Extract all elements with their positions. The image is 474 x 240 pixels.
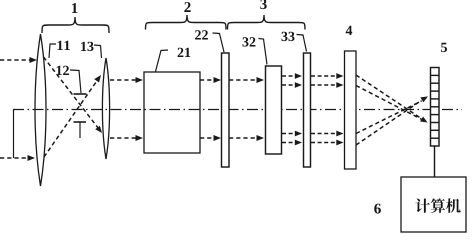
input beam bracket wire bbox=[13, 110, 15, 159]
box 21 bbox=[144, 72, 200, 153]
brace group 3 bbox=[228, 15, 306, 30]
label 计算机 (computer) bbox=[415, 198, 460, 213]
leader 13 bbox=[94, 45, 102, 58]
aperture 12 top bar bbox=[74, 93, 87, 95]
input beam arrow bottom bbox=[0, 155, 35, 161]
element 33 (thin plate) bbox=[304, 53, 311, 167]
leader 32 bbox=[259, 39, 268, 65]
ray pair element33 to lens4 upper bbox=[311, 73, 344, 88]
label 33 bbox=[282, 32, 295, 41]
aperture 12 bottom bar bbox=[74, 122, 87, 138]
ray element22 to grating32 bottom bbox=[229, 135, 264, 141]
ray lens13 to box21 top bbox=[110, 77, 143, 83]
ray pair element33 to lens4 lower bbox=[311, 131, 344, 146]
label 6 bbox=[374, 204, 381, 214]
wire array5 to computer bbox=[434, 146, 436, 177]
ray box21 to element22 top bbox=[200, 77, 221, 83]
ray pair grating32 to element33 upper bbox=[282, 73, 302, 88]
label 21 bbox=[178, 48, 191, 57]
lens 4 (focusing element) bbox=[345, 51, 357, 169]
label 2 bbox=[184, 2, 190, 12]
converging ray D bbox=[356, 100, 422, 145]
lens 11 (large collimating lens) bbox=[35, 34, 46, 186]
brace group 1 bbox=[42, 17, 109, 33]
optical axis bbox=[13, 109, 462, 111]
detector array 5 bbox=[431, 68, 440, 147]
leader 33 bbox=[297, 35, 307, 52]
arrowhead upper focus bbox=[420, 96, 428, 102]
label 32 bbox=[243, 37, 256, 46]
converging ray A (top pair to lower focus) bbox=[356, 75, 422, 119]
input beam arrow top bbox=[0, 57, 37, 63]
label 3 bbox=[260, 0, 266, 9]
leader 11 bbox=[49, 44, 56, 58]
arrowhead lower focus bbox=[420, 117, 427, 123]
leader 22 bbox=[213, 33, 225, 52]
ray box21 to element22 bottom bbox=[200, 135, 221, 141]
brace group 2 bbox=[146, 15, 227, 30]
leader 12 bbox=[70, 70, 81, 93]
leader 21 bbox=[156, 50, 169, 72]
element 22 (thin plate) bbox=[222, 53, 230, 167]
converging ray B bbox=[356, 86, 422, 120]
ray lens11 to lens13 (down diagonal) bbox=[44, 57, 103, 133]
label 22 bbox=[195, 30, 208, 39]
label 4 bbox=[346, 26, 353, 35]
ray pair grating32 to element33 lower bbox=[282, 131, 302, 146]
ray element22 to grating32 top bbox=[229, 77, 264, 83]
converging ray C (bottom pair to upper focus) bbox=[356, 101, 422, 134]
label 12 bbox=[57, 66, 69, 75]
label 5 bbox=[441, 43, 447, 52]
label 11 bbox=[58, 41, 70, 50]
computer box 6 bbox=[401, 177, 466, 232]
label 1 bbox=[72, 3, 78, 13]
ray lens11 to lens13 (up diagonal) bbox=[44, 75, 101, 157]
grating 32 bbox=[266, 66, 282, 154]
lens 13 (small collimating lens) bbox=[102, 58, 109, 159]
label 13 bbox=[81, 42, 93, 51]
ray lens13 to box21 bottom bbox=[110, 135, 143, 141]
